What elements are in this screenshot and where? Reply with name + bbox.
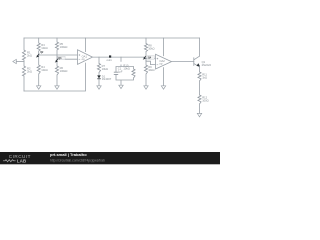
resistor R5 — [55, 42, 58, 50]
svg-text:100Ω: 100Ω — [202, 99, 209, 103]
svg-text:2N2222: 2N2222 — [202, 63, 212, 67]
resistor R9 — [144, 65, 147, 74]
svg-text:op: op — [82, 58, 85, 61]
node flag input terminal — [13, 59, 16, 63]
svg-text:10kΩ: 10kΩ — [41, 68, 47, 72]
label R3 — [41, 43, 47, 50]
label Q1 — [202, 60, 212, 67]
svg-text:1N4007: 1N4007 — [102, 77, 112, 81]
resistor R11 — [198, 72, 201, 81]
op-amp U1 — [78, 50, 93, 65]
wire column R3/R4 — [38, 38, 40, 86]
wire column R5/R6 — [56, 38, 58, 86]
transistor Q2 (glyph at node col 38.7) — [36, 52, 44, 57]
wire bottom rail — [24, 63, 86, 91]
resistor R7 — [97, 64, 100, 73]
wire op-amp1 output — [93, 57, 156, 59]
svg-text:out1: out1 — [107, 58, 113, 62]
transistor Q1 — [194, 38, 200, 67]
resistor R6 — [55, 66, 58, 75]
svg-text:LAB: LAB — [17, 159, 27, 164]
label R1 — [27, 51, 32, 58]
node out1 junction dot — [107, 55, 113, 61]
svg-text:http://circuitlab.com/c6874pcj: http://circuitlab.com/c6874pcjqws/trab — [50, 158, 105, 162]
svg-text:op: op — [159, 62, 162, 65]
resistor R2 — [22, 66, 25, 76]
ground (Q1 emitter leg) — [197, 113, 201, 116]
label R9 — [148, 65, 154, 72]
wire op-amp1 V+ pin — [85, 38, 87, 52]
resistor R4 — [37, 65, 40, 74]
label R12 — [202, 96, 209, 103]
wire op-amp2 V- pin — [163, 68, 165, 86]
svg-text:2kΩ: 2kΩ — [27, 70, 32, 74]
wire column R8 — [145, 38, 147, 56]
svg-text:prt.small | Trabalho: prt.small | Trabalho — [50, 152, 87, 157]
svg-text:10kΩ: 10kΩ — [102, 67, 108, 71]
transistor Q1 emitter arrow — [197, 63, 201, 66]
svg-text:10kΩ: 10kΩ — [148, 68, 154, 72]
svg-text:Q2: Q2 — [40, 52, 44, 54]
label R5 — [60, 42, 68, 49]
resistor R8 — [144, 44, 147, 52]
svg-text:10kΩ: 10kΩ — [148, 47, 154, 51]
label C1 — [118, 66, 123, 73]
svg-text:10kΩ: 10kΩ — [41, 46, 47, 50]
wire input flag lead — [16, 61, 24, 63]
wire op-amp1 non-inverting input — [39, 54, 78, 56]
label R8 — [148, 44, 154, 51]
svg-text:2kΩ: 2kΩ — [27, 54, 32, 58]
wire left column — [23, 38, 25, 91]
diode D1 — [97, 74, 112, 81]
svg-text:1kΩ: 1kΩ — [202, 76, 207, 80]
label R11 — [202, 73, 207, 80]
wire to op-amp2 inverting input — [146, 60, 156, 65]
ground (RC branch) — [119, 85, 123, 88]
label R6 — [60, 66, 68, 73]
ground (col 146) — [144, 86, 148, 89]
transistor Q3 (glyph at node col 57) — [55, 56, 65, 62]
svg-text:100kΩ: 100kΩ — [60, 45, 68, 49]
ground (op-amp2 V-) — [161, 86, 165, 89]
wire Q1 emitter leg — [199, 67, 201, 113]
label R10 — [123, 64, 129, 71]
wire top rail — [24, 37, 200, 39]
wire op-amp2 V+ pin — [163, 38, 165, 56]
logo CIRCUITLAB — [3, 154, 31, 164]
label R4 — [41, 65, 47, 72]
wire op-amp2 output to Q1 base — [172, 61, 194, 63]
capacitor C1 — [114, 72, 118, 74]
ground (col 38.7) — [37, 86, 41, 89]
transistor Q4 (glyph at node col 146) — [143, 56, 155, 60]
wire branch R7/D1 — [98, 57, 100, 86]
resistor R10 — [132, 69, 135, 78]
label R2 — [27, 67, 32, 74]
wire op-amp1 inverting input — [57, 58, 78, 60]
label R7 — [102, 64, 108, 71]
ground (col 57) — [55, 86, 59, 89]
resistor R12 — [198, 95, 201, 104]
op-amp U2 — [156, 54, 172, 69]
svg-text:10kΩ: 10kΩ — [123, 67, 129, 71]
footer bar — [0, 152, 220, 164]
svg-text:1μF: 1μF — [118, 69, 123, 73]
resistor R1 — [22, 50, 25, 60]
ground (col 99) — [97, 86, 101, 89]
wire column R9 to ground — [145, 60, 147, 86]
svg-text:100kΩ: 100kΩ — [60, 69, 68, 73]
wire RC tank branch — [116, 57, 134, 85]
resistor R3 — [37, 43, 40, 51]
